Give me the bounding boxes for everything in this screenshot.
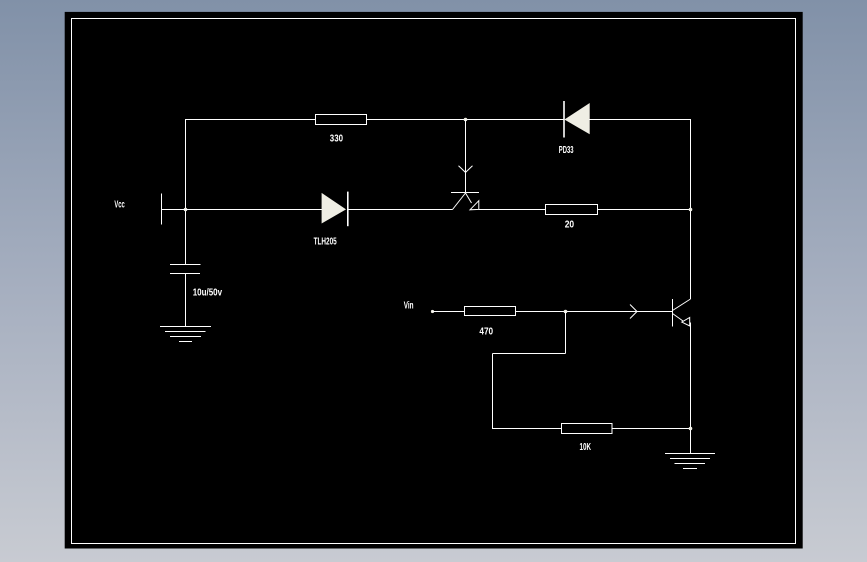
wire: SCR to resistor 20 bbox=[479, 209, 546, 211]
Vin terminal dot bbox=[431, 310, 434, 313]
resistor 330 (body) bbox=[316, 115, 367, 125]
svg-text:Vin: Vin bbox=[404, 299, 414, 311]
SCR Q1 right leg diagonal bbox=[466, 193, 472, 203]
diode PD33 triangle (points left) bbox=[565, 104, 589, 133]
wire: TLH205 to SCR emitter bbox=[348, 209, 453, 211]
svg-text:PD33: PD33 bbox=[559, 144, 574, 156]
wire: right rail lower vertical (emitter to ground) bbox=[690, 323, 692, 454]
transistor Q2 emitter diagonal bbox=[673, 314, 684, 322]
wire: resistor 10K to right rail bbox=[612, 428, 691, 430]
wire: top rail right segment (PD33 to right rail) bbox=[589, 119, 691, 121]
ground (left) line 2 bbox=[165, 331, 206, 333]
wire: right rail upper vertical bbox=[690, 120, 692, 300]
Vcc terminal bar bbox=[161, 194, 163, 225]
wire: left vertical (top rail down to capacitor) bbox=[185, 119, 187, 265]
SCR Q1 emitter open arrowhead bbox=[470, 201, 479, 210]
wire: top rail middle segment (R 330 to diode PD33) bbox=[367, 119, 564, 121]
SCR Q1 gate lead (vertical from top rail) bbox=[465, 120, 467, 194]
white inner border frame bbox=[72, 19, 796, 544]
resistor 10K (body) bbox=[562, 424, 613, 434]
wire: Vin to resistor 470 bbox=[433, 311, 466, 313]
SCR Q1 left leg diagonal bbox=[453, 193, 466, 210]
arrowhead on base wire (points right) bbox=[630, 305, 637, 319]
node: junction right rail / R10K bbox=[689, 427, 693, 431]
SCR Q1 arrowhead on gate lead (points down) bbox=[459, 166, 473, 173]
svg-text:330: 330 bbox=[330, 133, 343, 145]
wire: resistor 20 to right rail bbox=[598, 209, 691, 211]
node: Vcc junction dot bbox=[184, 208, 188, 212]
transistor Q2 collector diagonal bbox=[673, 299, 691, 311]
node: junction on base wire bbox=[564, 310, 568, 314]
transistor Q2 base bar bbox=[672, 299, 674, 327]
diode PD33 cathode bar bbox=[563, 101, 565, 138]
diode TLH205 cathode bar bbox=[347, 192, 349, 227]
capacitor C1 bottom plate bbox=[170, 273, 200, 275]
svg-text:10u/50v: 10u/50v bbox=[193, 287, 223, 299]
ground (right) line 3 bbox=[675, 463, 706, 465]
wire: feedback horizontal upper bbox=[493, 353, 566, 355]
ground (left) line 1 bbox=[160, 326, 211, 328]
svg-text:Vcc: Vcc bbox=[114, 199, 124, 211]
resistor 470 (body) bbox=[465, 307, 516, 316]
ground (left) line 3 bbox=[170, 336, 201, 338]
wire: feedback bottom to resistor 10K bbox=[493, 428, 563, 430]
wire: top rail left segment (Vcc node to R 330) bbox=[186, 119, 317, 121]
node: junction on top rail above SCR bbox=[464, 118, 468, 122]
SCR Q1 base bar bbox=[451, 192, 479, 194]
transistor Q2 emitter open arrowhead bbox=[682, 318, 690, 327]
ground (right) line 4 bbox=[683, 468, 697, 470]
svg-text:TLH205: TLH205 bbox=[314, 236, 337, 248]
ground (right) line 2 bbox=[670, 458, 710, 460]
wire: resistor 470 to transistor base bbox=[516, 311, 673, 313]
wire: feedback left vertical bbox=[492, 354, 494, 430]
resistor 20 (body) bbox=[546, 205, 598, 215]
ground (right) line 1 bbox=[665, 453, 715, 455]
svg-text:470: 470 bbox=[479, 326, 493, 338]
svg-text:20: 20 bbox=[565, 218, 575, 230]
svg-text:10K: 10K bbox=[580, 441, 592, 453]
node: junction right rail / R20 bbox=[689, 208, 693, 212]
capacitor C1 top plate bbox=[170, 264, 201, 266]
diode TLH205 triangle (points right) bbox=[322, 194, 345, 223]
ground (left) line 4 bbox=[179, 341, 192, 343]
wire: Vcc to diode TLH205 bbox=[162, 209, 323, 211]
wire: feedback drop from base junction bbox=[565, 312, 567, 354]
wire: capacitor to ground bbox=[185, 274, 187, 327]
